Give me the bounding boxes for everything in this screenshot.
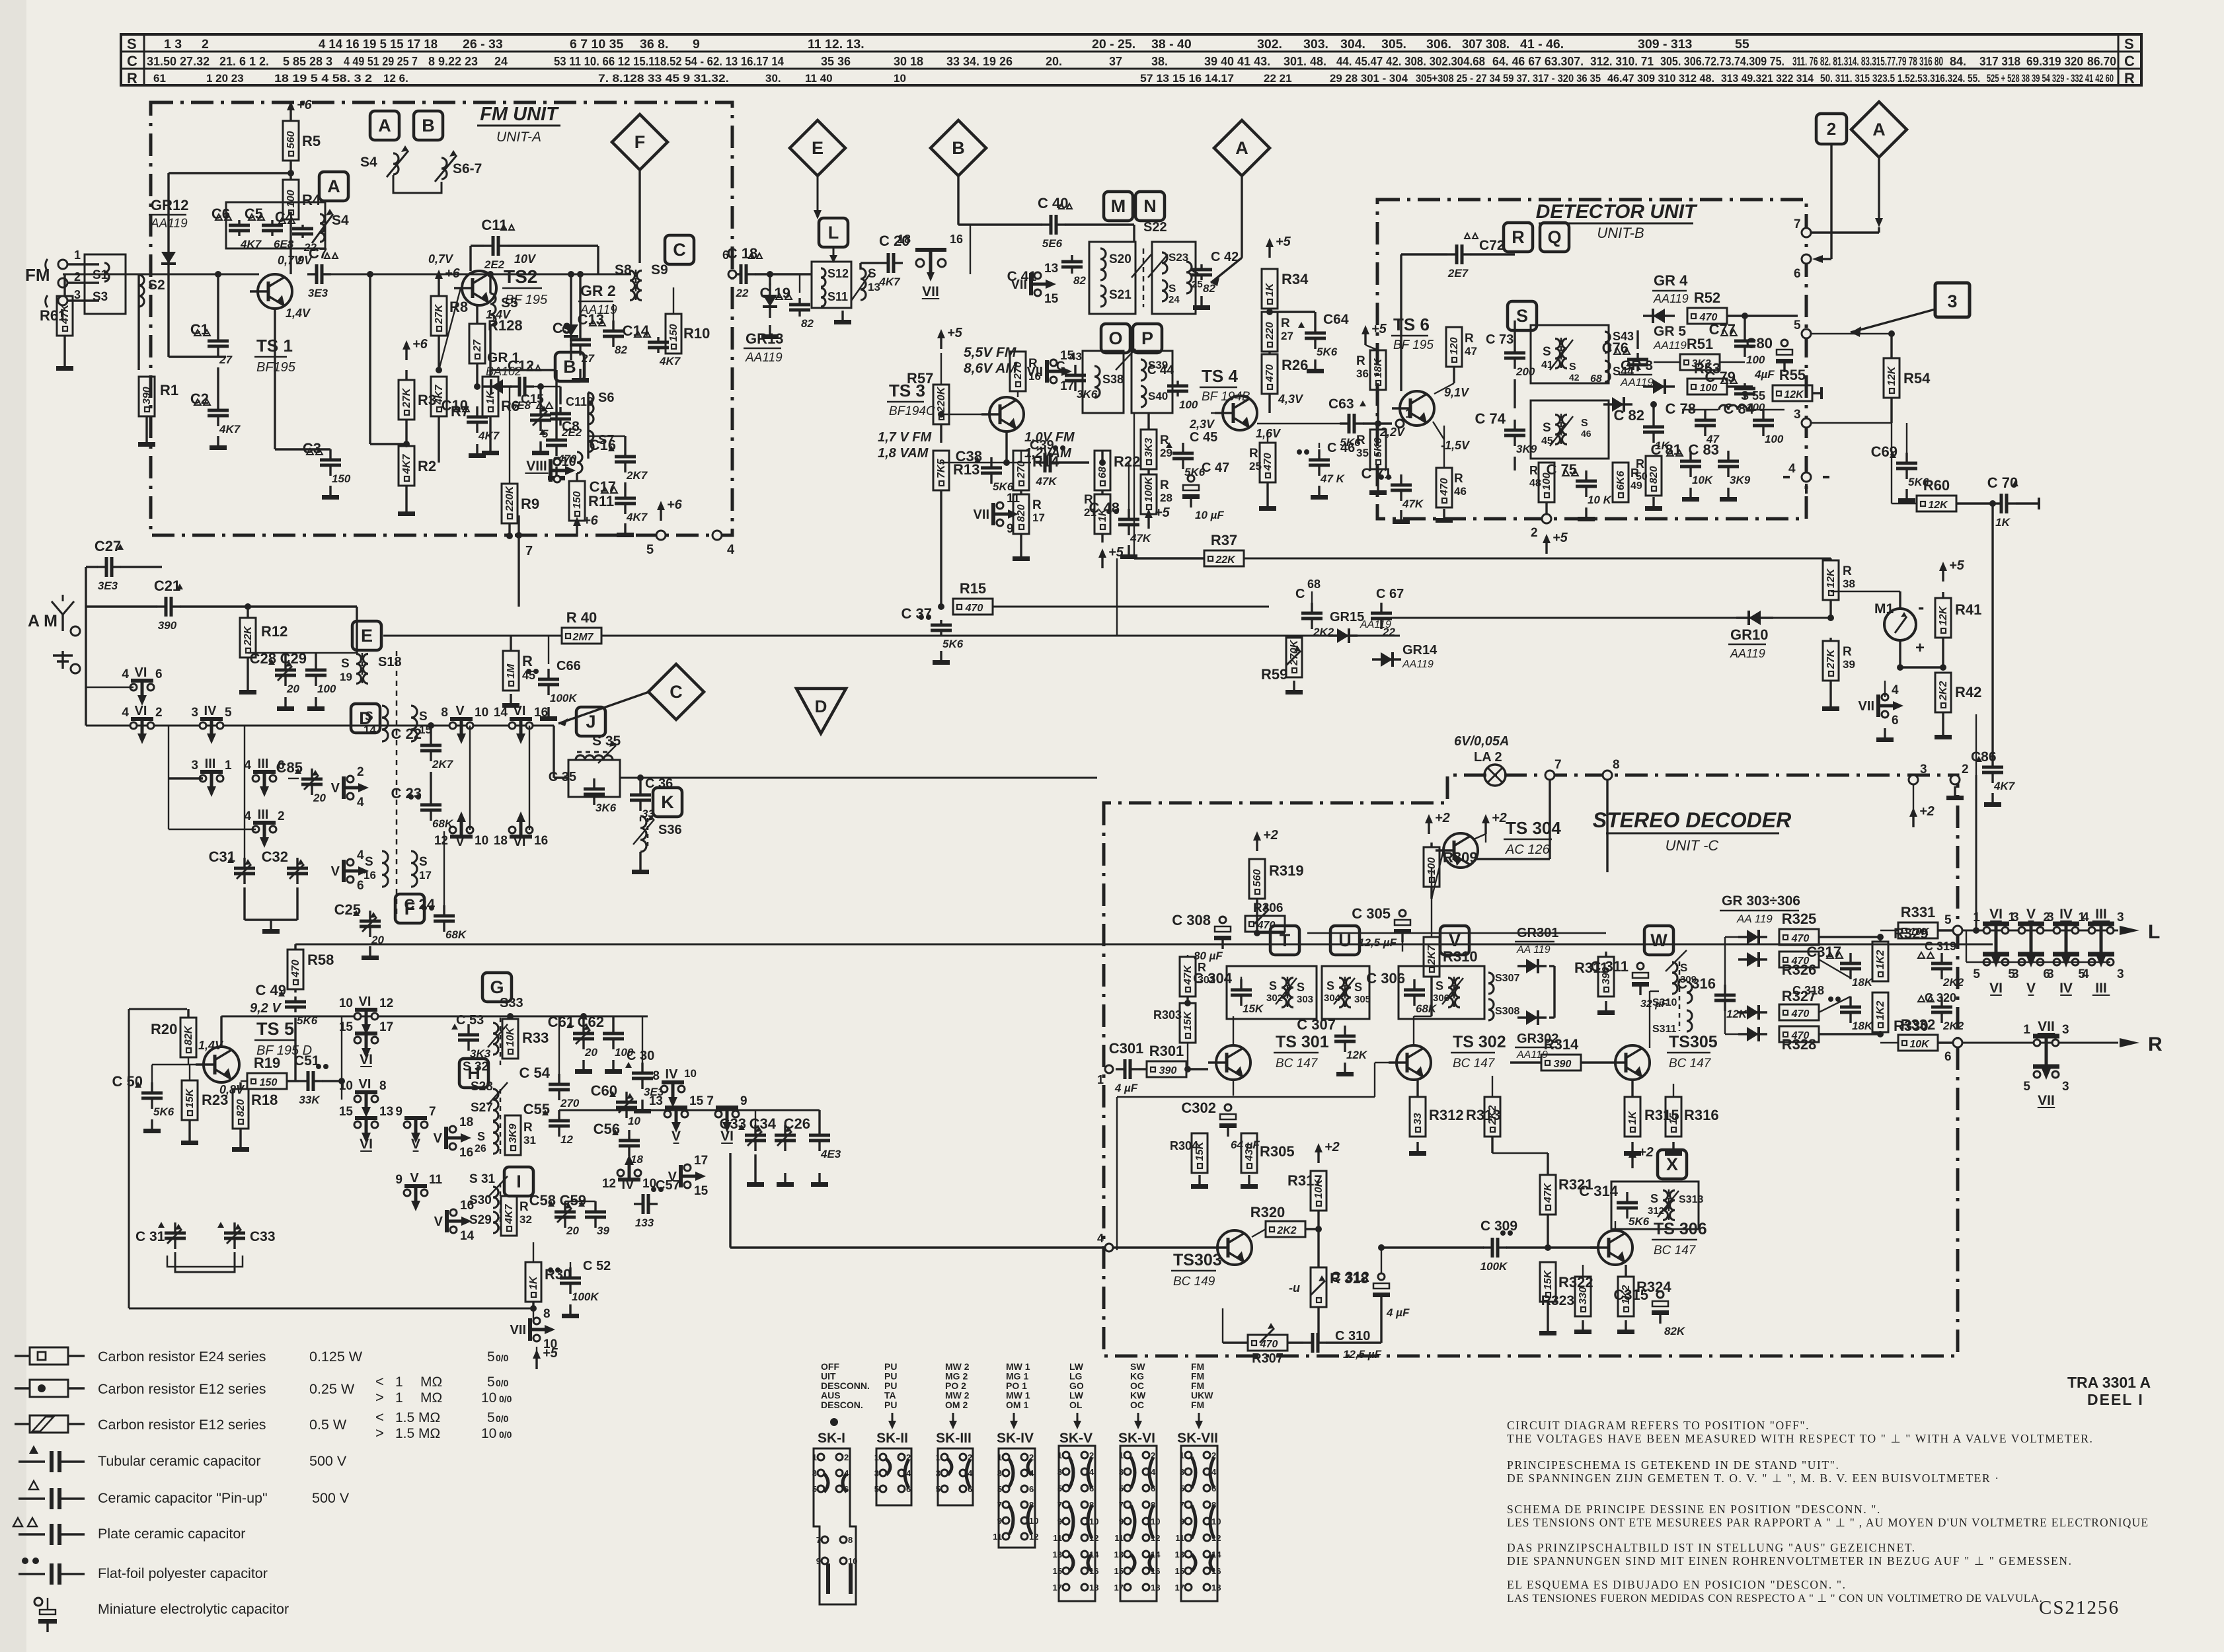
- capacitor C36: [639, 784, 641, 795]
- svg-text:V: V: [410, 1171, 419, 1185]
- svg-text:C33: C33: [720, 1115, 746, 1132]
- svg-text:GR14: GR14: [1402, 643, 1438, 657]
- svg-text:SK-I: SK-I: [818, 1431, 845, 1446]
- wire FM input: [67, 263, 99, 265]
- antenna 2 box and A diamond top right: [1816, 114, 1847, 144]
- diamond C connector: [648, 664, 704, 720]
- transformer block S14 S15: [382, 706, 388, 741]
- diamond E connector: [790, 120, 845, 176]
- svg-text:15: 15: [1175, 1566, 1184, 1576]
- svg-text:R: R: [1843, 564, 1852, 578]
- resistor R34: [1268, 247, 1270, 258]
- svg-text:5: 5: [1119, 1483, 1124, 1493]
- svg-text:S40: S40: [1148, 390, 1168, 402]
- svg-text:2K2: 2K2: [1938, 681, 1949, 701]
- svg-text:38: 38: [1843, 578, 1855, 590]
- resistor R4: [283, 180, 299, 219]
- svg-text:S23: S23: [1169, 251, 1188, 264]
- svg-text:S: S: [1569, 361, 1576, 373]
- svg-text:4: 4: [968, 1468, 973, 1478]
- svg-text:+2: +2: [1919, 804, 1935, 819]
- svg-text:25: 25: [1249, 460, 1262, 472]
- transformer S304 S305: [1322, 966, 1369, 1019]
- capacitor C28 variable: [284, 659, 286, 670]
- svg-text:150: 150: [332, 472, 351, 485]
- svg-text:C60: C60: [591, 1082, 617, 1099]
- capacitor C37: [940, 620, 942, 625]
- letterbox M N: [1104, 192, 1133, 221]
- svg-text:V: V: [411, 1137, 420, 1152]
- svg-text:5: 5: [542, 428, 549, 440]
- svg-text:6: 6: [1944, 1050, 1952, 1064]
- capacitor C80 electrolytic: [1781, 340, 1788, 346]
- svg-text:13: 13: [379, 1105, 393, 1119]
- svg-text:R5: R5: [302, 133, 321, 149]
- svg-text:12K: 12K: [1886, 365, 1898, 386]
- svg-text:13: 13: [868, 281, 880, 293]
- svg-text:D: D: [815, 696, 827, 716]
- svg-text:C55: C55: [523, 1101, 550, 1117]
- resistor R20 82K: [180, 1018, 196, 1057]
- switch VI d: [354, 1121, 361, 1128]
- svg-text:Miniature electrolytic capacit: Miniature electrolytic capacitor: [98, 1601, 289, 1617]
- svg-text:S4: S4: [360, 155, 377, 170]
- svg-text:Carbon resistor E12 series: Carbon resistor E12 series: [98, 1417, 266, 1433]
- svg-text:303.: 303.: [1303, 37, 1328, 52]
- resistor R17: [1013, 494, 1029, 534]
- capacitor C302 electrolytic: [1225, 1104, 1231, 1111]
- svg-text:16: 16: [950, 233, 963, 246]
- svg-text:VI: VI: [359, 1077, 371, 1092]
- svg-text:15: 15: [1044, 292, 1059, 306]
- svg-text:C: C: [673, 240, 686, 260]
- svg-text:270: 270: [1016, 461, 1027, 479]
- svg-text:43: 43: [1069, 350, 1082, 363]
- svg-text:OC: OC: [1130, 1400, 1144, 1410]
- capacitor C7 series: [307, 273, 317, 275]
- power +2 above X: [1631, 1158, 1633, 1168]
- 3 square box right: [1935, 283, 1970, 317]
- svg-text:22 21: 22 21: [1264, 72, 1292, 85]
- svg-text:5K6: 5K6: [153, 1106, 174, 1118]
- svg-text:C 319: C 319: [1925, 940, 1956, 953]
- svg-text:C: C: [1295, 587, 1305, 601]
- svg-text:6: 6: [357, 879, 364, 893]
- svg-text:305: 305: [1354, 994, 1371, 1005]
- svg-text:C 74: C 74: [1475, 410, 1506, 427]
- svg-text:TS 302: TS 302: [1453, 1033, 1506, 1051]
- svg-text:DAS PRINZIPSCHALTBILD IST IN S: DAS PRINZIPSCHALTBILD IST IN STELLUNG "A…: [1507, 1541, 1916, 1554]
- svg-text:3: 3: [1920, 763, 1927, 776]
- svg-text:64. 46 67 63.307.: 64. 46 67 63.307.: [1492, 55, 1584, 68]
- svg-text:C39: C39: [1030, 438, 1054, 453]
- svg-text:7: 7: [525, 544, 533, 558]
- svg-text:S21: S21: [1109, 288, 1131, 302]
- resistor R7: [431, 377, 447, 416]
- svg-text:30.: 30.: [765, 72, 781, 85]
- svg-text:R319: R319: [1269, 862, 1304, 879]
- svg-text:4: 4: [122, 667, 129, 681]
- switch III row2a: [200, 775, 206, 782]
- resistor R38 12K: [1823, 560, 1839, 600]
- resistor R37 22K: [1204, 550, 1244, 566]
- svg-text:11: 11: [1114, 1533, 1124, 1543]
- resistor R318 pot: [1311, 1267, 1326, 1307]
- svg-text:C 316: C 316: [1677, 975, 1716, 992]
- svg-text:9: 9: [693, 37, 700, 52]
- transistor TS304: [1443, 833, 1478, 868]
- stereo pin 4: [1105, 1244, 1113, 1252]
- svg-text:0/0: 0/0: [499, 1429, 512, 1440]
- svg-text:S11: S11: [827, 290, 848, 303]
- legend flat-foil symbol: [22, 1558, 28, 1564]
- capacitor C51 series: [299, 1080, 308, 1082]
- svg-text:15: 15: [689, 1094, 704, 1108]
- svg-text:2: 2: [1531, 526, 1538, 540]
- svg-text:R15: R15: [960, 580, 986, 597]
- resistor R25: [1260, 443, 1276, 482]
- transistor TS302: [1397, 1045, 1431, 1080]
- capacitor C320: [1940, 996, 1942, 1007]
- svg-text:C 308: C 308: [1172, 912, 1211, 928]
- svg-text:AA119: AA119: [1402, 659, 1434, 670]
- svg-text:150: 150: [668, 324, 679, 342]
- svg-text:17: 17: [419, 869, 432, 882]
- svg-text:C13: C13: [578, 311, 604, 328]
- svg-text:10K: 10K: [1909, 926, 1930, 938]
- svg-text:5: 5: [2023, 1080, 2030, 1094]
- legend pin-up capacitor symbol: [29, 1481, 38, 1489]
- svg-text:>: >: [375, 1425, 384, 1441]
- svg-text:17: 17: [1175, 1583, 1184, 1593]
- svg-text:500 V: 500 V: [312, 1490, 350, 1506]
- svg-text:3E3: 3E3: [308, 287, 328, 299]
- resistor R33 10K: [502, 1019, 518, 1059]
- output switch VII R channel: [2033, 1034, 2059, 1039]
- svg-text:4: 4: [357, 796, 364, 809]
- capacitor C14: [657, 337, 659, 342]
- capacitor C312 electrolytic: [1378, 1273, 1385, 1280]
- svg-text:12K: 12K: [1346, 1049, 1368, 1061]
- svg-text:Carbon resistor E24 series: Carbon resistor E24 series: [98, 1349, 266, 1365]
- svg-text:5 85 28 3: 5 85 28 3: [283, 55, 332, 68]
- resistor R18 820: [233, 1089, 249, 1129]
- svg-text:VI: VI: [514, 704, 526, 718]
- svg-text:500 V: 500 V: [309, 1453, 347, 1469]
- svg-text:C66: C66: [556, 659, 581, 673]
- svg-text:390: 390: [1159, 1065, 1177, 1076]
- svg-text:0/0: 0/0: [499, 1394, 512, 1404]
- svg-text:C61: C61: [548, 1014, 574, 1030]
- svg-text:S307: S307: [1495, 973, 1519, 984]
- svg-text:R328: R328: [1782, 1036, 1817, 1053]
- svg-text:2K2: 2K2: [1276, 1225, 1296, 1236]
- svg-text:3: 3: [1180, 1467, 1184, 1477]
- svg-text:470: 470: [1791, 1008, 1810, 1020]
- letterbox K: [653, 788, 682, 817]
- svg-text:C86: C86: [1971, 749, 1997, 765]
- svg-text:3: 3: [936, 1468, 940, 1478]
- svg-text:13: 13: [1053, 1550, 1062, 1559]
- svg-text:S36: S36: [658, 823, 682, 837]
- svg-text:R2: R2: [418, 458, 436, 474]
- capacitor C315 electrolytic: [1657, 1291, 1664, 1298]
- stereo top pins: [1545, 770, 1554, 780]
- svg-text:C: C: [1056, 359, 1065, 373]
- capacitor C31 gang: [243, 858, 245, 868]
- svg-text:S: S: [1169, 282, 1176, 295]
- svg-text:E: E: [361, 626, 373, 646]
- resistor R2: [399, 446, 414, 486]
- svg-text:470: 470: [1439, 478, 1450, 496]
- capacitor C301 series: [1116, 1068, 1125, 1070]
- svg-text:GR15: GR15: [1330, 610, 1364, 624]
- svg-text:8: 8: [848, 1535, 853, 1545]
- svg-text:SK-IV: SK-IV: [997, 1431, 1034, 1446]
- svg-text:+5: +5: [1155, 506, 1170, 520]
- svg-text:15: 15: [339, 1020, 354, 1034]
- svg-text:820: 820: [1648, 466, 1660, 484]
- resistor R328: [1779, 1026, 1819, 1042]
- svg-text:4K7: 4K7: [401, 454, 412, 474]
- AGC line: [1388, 617, 1831, 619]
- svg-text:470: 470: [1264, 364, 1276, 383]
- switch V 17 15: [684, 1164, 691, 1171]
- switch VII after C20: [916, 259, 924, 267]
- resistor R49 6K6: [1613, 463, 1629, 502]
- diode GR14: [1372, 658, 1401, 660]
- diode GR10: [1736, 617, 1773, 619]
- svg-text:100: 100: [1700, 383, 1718, 394]
- svg-text:B: B: [563, 357, 576, 377]
- svg-text:3: 3: [2062, 1080, 2069, 1094]
- power +5 R41: [1942, 571, 1944, 582]
- switch V vertical b: [347, 859, 354, 866]
- svg-text:100K: 100K: [550, 692, 578, 704]
- svg-text:AA119: AA119: [1653, 339, 1687, 352]
- svg-text:4K7: 4K7: [478, 430, 500, 442]
- coil S2: [139, 275, 144, 307]
- svg-text:7: 7: [1794, 217, 1801, 231]
- svg-text:36: 36: [1356, 367, 1369, 380]
- DETECTOR UNIT enclosure dash-dot box: [1377, 200, 1806, 519]
- wire AM line to S35 block: [553, 726, 555, 778]
- SK-IV box: [999, 1448, 1035, 1548]
- svg-text:2: 2: [2043, 911, 2050, 924]
- svg-text:C12: C12: [508, 357, 534, 374]
- svg-text:V: V: [331, 864, 340, 879]
- capacitor C62: [612, 1023, 614, 1033]
- resistor R330 1K2: [1872, 993, 1888, 1032]
- svg-text:22: 22: [736, 287, 749, 299]
- svg-text:R: R: [2124, 70, 2135, 87]
- capacitor C29: [315, 659, 317, 670]
- svg-text:V: V: [455, 704, 465, 718]
- svg-text:S313: S313: [1679, 1194, 1703, 1205]
- line C55 to switches: [559, 1109, 820, 1111]
- svg-text:13: 13: [1175, 1550, 1184, 1559]
- svg-text:24: 24: [1169, 294, 1180, 305]
- svg-text:0/0: 0/0: [496, 1378, 509, 1388]
- svg-text:DETECTOR UNIT: DETECTOR UNIT: [1536, 201, 1698, 223]
- svg-text:R33: R33: [522, 1030, 549, 1046]
- wire TS3 emitter row: [941, 462, 1031, 463]
- letterbox I: [504, 1167, 533, 1196]
- svg-text:1: 1: [395, 1390, 403, 1406]
- svg-text:4K7: 4K7: [626, 511, 648, 523]
- svg-text:EL ESQUEMA ES DIBUJADO EN POSI: EL ESQUEMA ES DIBUJADO EN POSICION "DESC…: [1507, 1578, 1847, 1591]
- svg-text:27: 27: [1281, 330, 1293, 342]
- svg-text:A: A: [1235, 138, 1248, 158]
- svg-text:3K6: 3K6: [595, 802, 617, 814]
- svg-text:10: 10: [894, 72, 906, 85]
- svg-text:BF 194B: BF 194B: [1202, 390, 1250, 404]
- svg-text:307 308.: 307 308.: [1462, 37, 1510, 52]
- svg-text:1: 1: [1973, 911, 1980, 924]
- svg-text:2: 2: [844, 1452, 849, 1462]
- svg-text:BF 195: BF 195: [505, 293, 548, 307]
- svg-text:82: 82: [801, 317, 814, 330]
- svg-text:12K: 12K: [1784, 389, 1804, 400]
- svg-text:5: 5: [1973, 967, 1980, 981]
- svg-text:1,4V: 1,4V: [286, 307, 311, 320]
- svg-text:2K7: 2K7: [432, 758, 454, 770]
- svg-text:4,3V: 4,3V: [1278, 393, 1304, 406]
- switch III row3: [252, 826, 259, 833]
- meter M1: [1884, 609, 1916, 640]
- resistor R315 1K: [1625, 1097, 1640, 1137]
- svg-text:100K: 100K: [1480, 1260, 1508, 1273]
- svg-text:15K: 15K: [184, 1088, 196, 1108]
- resistor R27 220: [1262, 312, 1278, 352]
- svg-text:16: 16: [364, 869, 376, 882]
- svg-text:+5: +5: [543, 1346, 558, 1361]
- svg-text:Q: Q: [1547, 227, 1561, 247]
- resistor R54 12K: [1884, 358, 1899, 398]
- svg-text:2: 2: [1827, 119, 1836, 139]
- coil S55 C78 C84: [1704, 410, 1706, 420]
- svg-text:C 310: C 310: [1335, 1329, 1370, 1343]
- svg-text:C56: C56: [594, 1121, 620, 1137]
- resistor R48 100: [1539, 463, 1554, 502]
- svg-text:3: 3: [2117, 967, 2124, 981]
- svg-text:IV: IV: [666, 1067, 679, 1082]
- switch III row2b: [252, 775, 259, 782]
- capacitor C10: [476, 406, 478, 417]
- svg-text:LAS TENSIONES FUERON MEDIDAS C: LAS TENSIONES FUERON MEDIDAS CON RESPECT…: [1507, 1592, 2042, 1604]
- svg-text:C57: C57: [656, 1178, 680, 1193]
- svg-text:UNIT -C: UNIT -C: [1666, 837, 1719, 854]
- capacitor C23: [430, 794, 432, 805]
- svg-text:R: R: [1032, 498, 1042, 512]
- svg-text:C: C: [2124, 53, 2135, 69]
- svg-text:R301: R301: [1149, 1043, 1184, 1059]
- svg-text:44. 45.47 42. 308. 302.304.68: 44. 45.47 42. 308. 302.304.68: [1336, 55, 1485, 68]
- svg-text:11: 11: [993, 1532, 1002, 1542]
- transformer S39 S40: [1131, 351, 1172, 413]
- svg-text:C 30: C 30: [627, 1049, 654, 1063]
- svg-text:430: 430: [1244, 1143, 1255, 1162]
- svg-text:S: S: [1650, 1192, 1658, 1205]
- svg-text:TS303: TS303: [1173, 1251, 1222, 1269]
- svg-text:X: X: [1666, 1154, 1678, 1174]
- letterbox U: [1330, 926, 1360, 955]
- svg-text:7: 7: [816, 1535, 821, 1545]
- svg-text:C32: C32: [262, 848, 288, 865]
- svg-text:+5: +5: [947, 326, 963, 340]
- svg-text:3: 3: [191, 706, 198, 720]
- svg-text:20.: 20.: [1046, 55, 1062, 68]
- capacitor C82: [1652, 416, 1654, 427]
- svg-text:82: 82: [615, 344, 627, 356]
- svg-text:30 18: 30 18: [894, 55, 923, 68]
- svg-text:BC 147: BC 147: [1453, 1057, 1496, 1070]
- svg-text:5: 5: [225, 706, 232, 720]
- svg-text:1: 1: [812, 1452, 817, 1462]
- svg-text:82K: 82K: [183, 1025, 194, 1045]
- svg-text:S6: S6: [598, 391, 614, 405]
- svg-text:2K7: 2K7: [626, 469, 648, 482]
- svg-text:12: 12: [560, 1133, 573, 1146]
- capacitor C46: [1318, 449, 1320, 460]
- svg-text:SK-II: SK-II: [876, 1431, 908, 1446]
- svg-text:R: R: [1281, 317, 1290, 330]
- svg-text:DESCON.: DESCON.: [821, 1400, 863, 1410]
- switch VII bottom +5: [533, 1318, 540, 1324]
- svg-text:470: 470: [290, 959, 301, 978]
- svg-text:4 µF: 4 µF: [1386, 1306, 1410, 1319]
- svg-text:R314: R314: [1544, 1036, 1579, 1053]
- svg-text:2,2V: 2,2V: [1379, 426, 1406, 439]
- svg-text:R: R: [1160, 478, 1169, 492]
- capacitor C77: [1744, 330, 1745, 341]
- svg-text:17: 17: [1032, 511, 1045, 524]
- svg-text:S 31: S 31: [469, 1172, 496, 1186]
- svg-text:BC 147: BC 147: [1276, 1057, 1319, 1070]
- svg-text:DEEL I: DEEL I: [2087, 1391, 2144, 1408]
- svg-text:+5: +5: [1949, 558, 1965, 573]
- svg-text:C 305: C 305: [1352, 905, 1391, 922]
- svg-text:1: 1: [395, 1374, 403, 1390]
- svg-text:317 318: 317 318: [1979, 55, 2020, 68]
- resistor R332 10K: [1898, 1035, 1938, 1051]
- capacitor C69: [1905, 453, 1907, 463]
- svg-text:R59: R59: [1261, 666, 1287, 683]
- svg-text:C17: C17: [590, 478, 616, 495]
- vertical feed from stereo box top right: [1975, 775, 1977, 930]
- svg-text:R: R: [1356, 354, 1365, 368]
- capacitor C59: [594, 1201, 596, 1212]
- svg-text:12K: 12K: [1928, 500, 1948, 511]
- svg-text:6E8: 6E8: [274, 238, 294, 250]
- svg-text:100: 100: [1746, 354, 1765, 366]
- svg-text:C315: C315: [1613, 1287, 1648, 1303]
- svg-text:12: 12: [379, 996, 393, 1010]
- svg-text:2: 2: [278, 809, 285, 823]
- capacitor C311 electrolytic: [1637, 963, 1644, 969]
- svg-text:27K: 27K: [401, 387, 412, 408]
- capacitor C306: [1399, 966, 1484, 1019]
- svg-text:200: 200: [1515, 365, 1535, 378]
- svg-text:C 18: C 18: [727, 245, 757, 262]
- capacitor C22: [430, 735, 432, 745]
- capacitor C3: [329, 449, 331, 460]
- resistor R324 1K2: [1618, 1277, 1634, 1316]
- svg-text:A M: A M: [28, 612, 58, 630]
- switch V vert 18 16: [449, 1126, 456, 1133]
- ground under R1: [145, 433, 147, 442]
- capacitor C49: [294, 996, 296, 1002]
